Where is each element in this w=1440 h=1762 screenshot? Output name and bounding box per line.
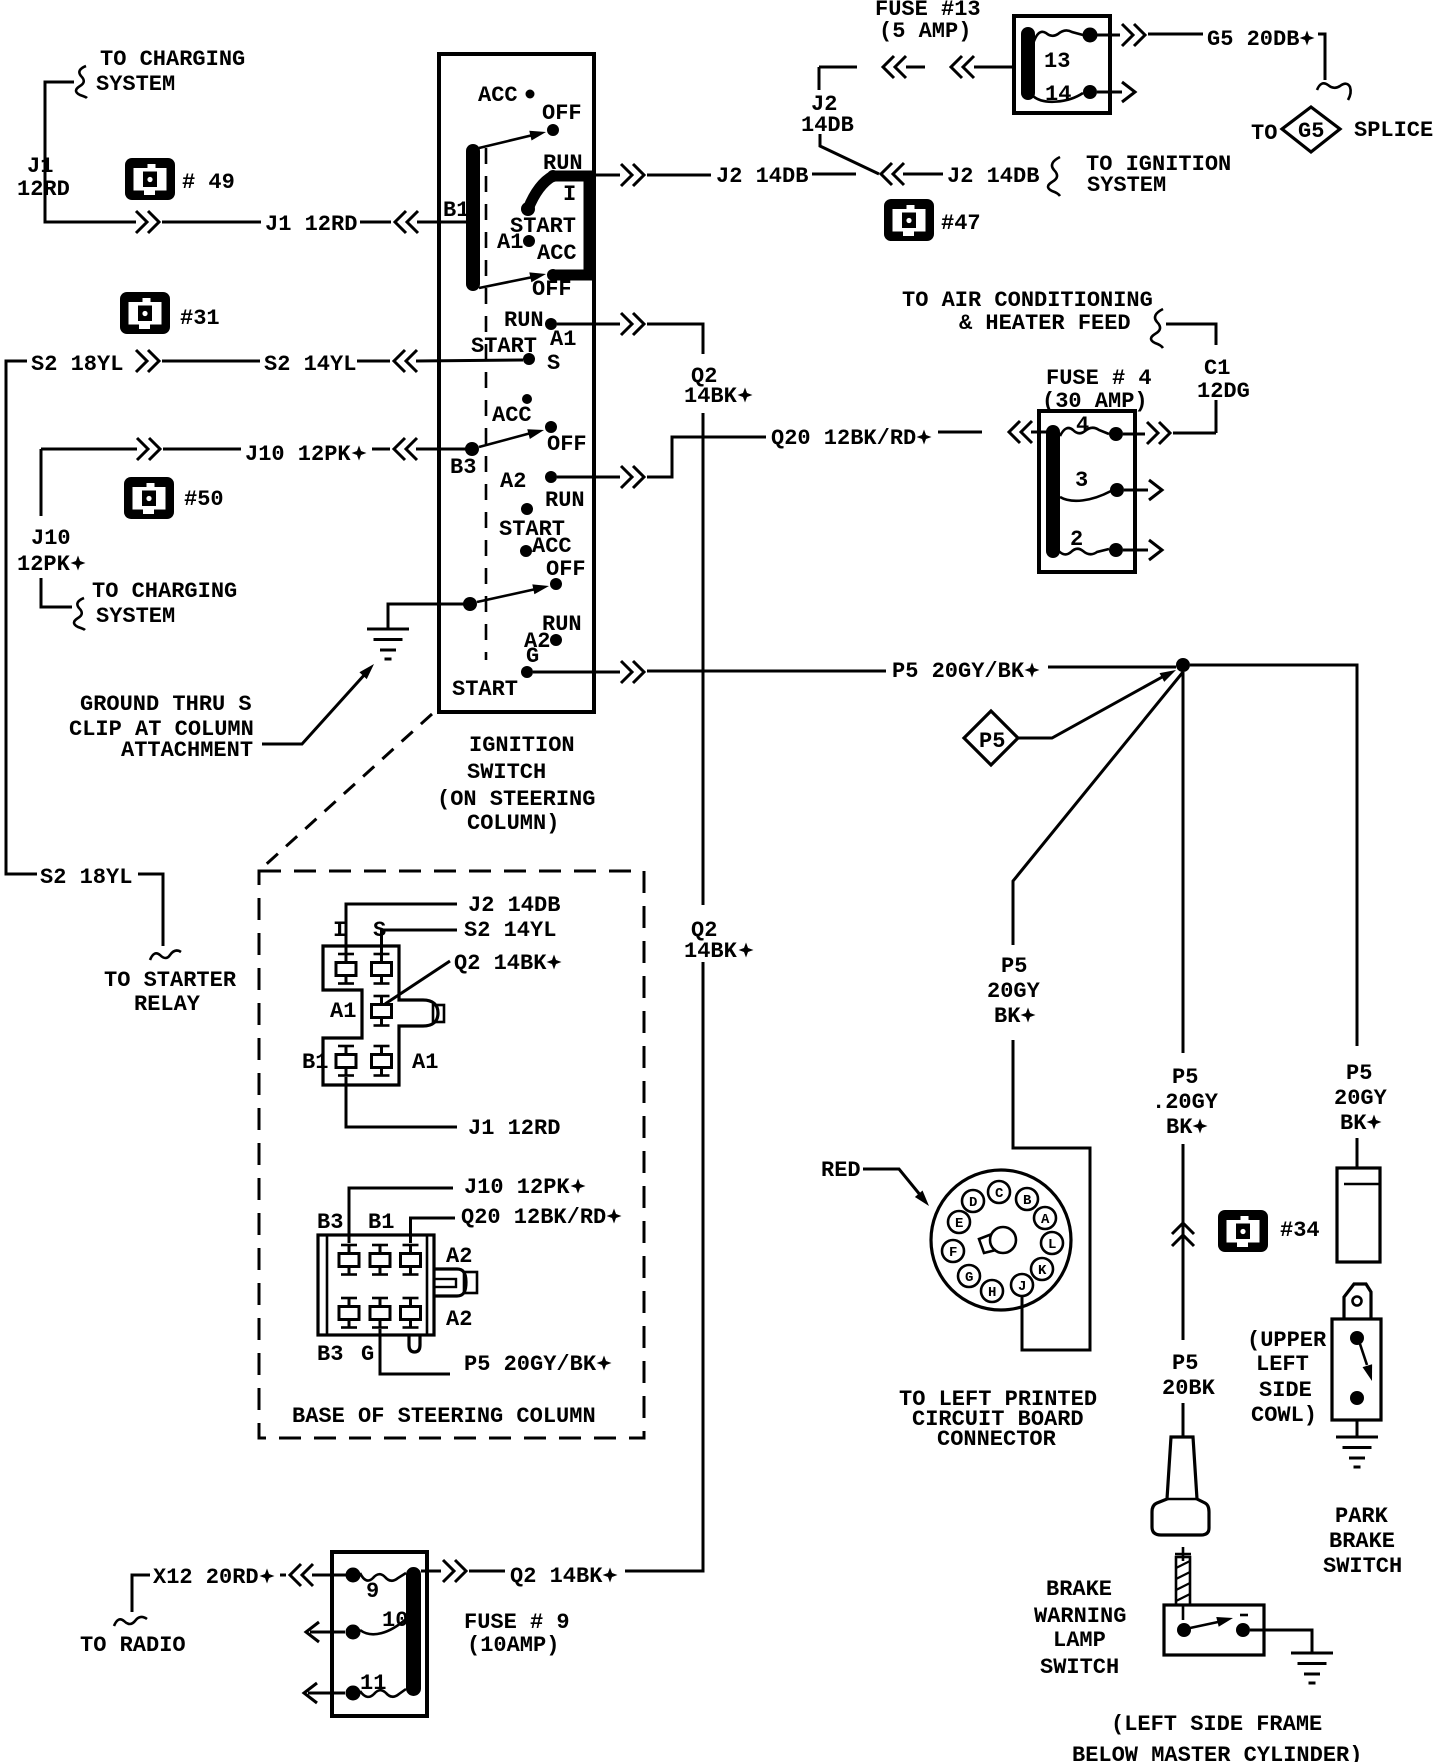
grommet #31 [120,292,220,334]
wire J1 to switch [360,221,391,224]
wire fuse14 out [1097,91,1122,94]
note (UPPER LEFT SIDE COWL) [1247,1328,1327,1428]
key of round connector [979,1227,1016,1253]
svg-text:D: D [969,1195,977,1211]
wire P5 to junction [1048,666,1176,669]
wire X12 to fuse9 [280,1574,286,1577]
terminal ACC2 (sec3) [520,534,572,559]
wire fuse4 to C1 [1173,432,1216,435]
svg-text:14BK: 14BK [684,939,738,964]
svg-text:L: L [1048,1237,1056,1253]
wire fuse13 pin13 out [1097,34,1120,37]
break squiggle (heater feed) [1151,309,1163,348]
wire C1 down to fuse4 out [1215,400,1218,433]
wire G5 20DB [1148,33,1203,36]
pin B3b (lower) [339,1298,359,1328]
lower connector tab [434,1269,477,1296]
dashed divider inside switch [485,148,488,660]
svg-text:#31: #31 [180,306,220,331]
svg-text:Q20 12BK/RD: Q20 12BK/RD [461,1205,606,1230]
lower column connector box [318,1235,434,1335]
caption TO LEFT PRINTED CIRCUIT BOARD CONNECTOR [899,1387,1097,1452]
svg-text:P5: P5 [1001,954,1027,979]
node label J2 14DB [801,92,854,138]
break squiggle (radio) [114,1617,147,1626]
svg-text:BRAKE: BRAKE [1329,1529,1395,1554]
fuse 2 element [1057,527,1123,557]
svg-text:TO STARTER: TO STARTER [104,968,237,993]
upper column connector outline [323,946,438,1085]
caption PARK BRAKE SWITCH [1323,1504,1402,1579]
wire RUN A1 out [557,323,620,326]
break squiggle (charging system 2) [74,598,85,630]
svg-text:Q2 14BK: Q2 14BK [454,951,547,976]
svg-text:A2: A2 [446,1307,472,1332]
svg-text:20GY: 20GY [987,979,1041,1004]
wiper arrow B1 to OFF2 [479,269,547,288]
wire label G5 20DB [1207,27,1315,52]
svg-text:J2 14DB: J2 14DB [716,164,808,189]
caption IGNITION SWITCH [437,733,595,836]
wire label Q2 14BK (mid) [684,918,754,964]
svg-text:K: K [1038,1263,1047,1279]
svg-text:TO RADIO: TO RADIO [80,1633,186,1658]
wire label P5 20BK [1162,1351,1216,1401]
wire label P5 20GY BK (left column) [987,954,1041,1029]
svg-text:J: J [1018,1279,1026,1295]
printed circuit board connector (round) [931,1170,1071,1310]
svg-text:BK: BK [994,1004,1021,1029]
svg-text:12PK: 12PK [17,552,71,577]
svg-text:(UPPER: (UPPER [1247,1328,1327,1353]
fuse block 13 bus bar [1021,27,1035,100]
svg-text:OFF: OFF [547,432,587,457]
svg-text:F: F [949,1245,957,1261]
svg-text:B1: B1 [302,1050,328,1075]
terminal A2 RUN (sec3) [500,469,585,513]
wire S2 14YL [162,360,260,363]
pin L [1041,1232,1063,1254]
svg-text:C: C [995,1186,1004,1202]
svg-text:A2: A2 [446,1244,472,1269]
svg-text:J10 12PK: J10 12PK [245,442,351,467]
wire P5 20BK to cone [1182,1403,1185,1437]
wire S2 18YL left rail [6,361,37,874]
terminal START (sec3) [499,503,565,542]
svg-text:TO: TO [1251,121,1277,146]
connector cone (brake warning feed) [1152,1437,1209,1535]
svg-text:J1 12RD: J1 12RD [468,1116,560,1141]
wire C1 12DG [1166,324,1216,345]
node TO CHARGING SYSTEM (mid left) [92,579,237,629]
wire ground to switch [388,604,465,629]
connector arrow J2 feed 1 [883,56,906,78]
terminal B3 [450,442,479,480]
svg-text:A1: A1 [330,999,356,1024]
break squiggle (starter relay) [150,951,181,960]
terminal OFF2 (sec3) [546,557,586,590]
svg-text:B3: B3 [317,1342,343,1367]
wire S2 into switch to S terminal [416,360,523,361]
svg-text:B3: B3 [317,1210,343,1235]
wire fuse4 pin4 out [1123,433,1145,436]
svg-text:SWITCH: SWITCH [467,760,546,785]
node TO G5 SPLICE [1251,107,1433,152]
wire J10 rail [40,449,43,516]
connector arrow J10 in [394,438,417,460]
wire fuse9 out [421,1570,441,1573]
svg-text:J10: J10 [31,526,71,551]
svg-text:E: E [955,1216,963,1232]
svg-text:S2 14YL: S2 14YL [464,918,556,943]
terminal START (sec1) [510,202,576,239]
wire J2 row right [903,173,943,176]
pin A2b (lower) [401,1298,421,1328]
node P5 junction [1176,658,1190,672]
splice diamond P5 [964,711,1018,765]
wire brake switch to ground [1250,1630,1312,1653]
svg-text:(ON STEERING: (ON STEERING [437,787,595,812]
leader P5 diamond to junction [1018,666,1178,738]
svg-text:(5 AMP): (5 AMP) [879,19,971,44]
wire junction down (P5 .20GY BK) [1182,672,1185,1053]
svg-text:ACC: ACC [492,403,532,428]
pin A [1034,1207,1056,1229]
svg-text:COWL): COWL) [1251,1403,1317,1428]
thick contact path I [528,176,589,275]
svg-text:14DB: 14DB [801,113,854,138]
ground (park brake) [1336,1437,1378,1467]
wire J2 row [647,174,711,177]
node TO AIR CONDITIONING [902,288,1153,336]
svg-text:#50: #50 [184,487,224,512]
connector arrow fuse9 out [443,1560,466,1582]
svg-text:START: START [452,677,518,702]
svg-text:TO AIR CONDITIONING: TO AIR CONDITIONING [902,288,1153,313]
terminal RUN A1 (sec2) [504,308,576,352]
arrow fuse2 out [1149,540,1162,560]
wire right column to connector [1356,1138,1359,1168]
svg-text:BRAKE: BRAKE [1046,1577,1112,1602]
svg-text:I: I [333,918,346,943]
connector arrow fuse13 out [1122,24,1145,46]
fuse 10 element [346,1608,409,1640]
wire J2 row mid [812,173,856,176]
pin G [958,1265,980,1287]
wire label Q2 14BK (upper) [684,364,753,409]
brake warning switch plunger cross [1175,1547,1191,1561]
svg-text:PARK: PARK [1335,1504,1389,1529]
svg-text:S: S [547,351,560,376]
terminal OFF (sec3) [545,421,587,457]
svg-text:.20GY: .20GY [1152,1090,1219,1115]
brake warning contacts [1177,1613,1250,1637]
pin E [948,1211,970,1233]
svg-text:BK: BK [1340,1111,1367,1136]
arrow fuse11 [304,1683,317,1703]
svg-text:OFF: OFF [542,101,582,126]
terminal OFF2 (sec1) [532,269,572,302]
connector arrow J1 in [395,211,418,233]
svg-text:Q20 12BK/RD: Q20 12BK/RD [771,426,916,451]
wire label Q2 14BK (conn) [454,951,562,976]
ground symbol (column) [367,629,409,659]
svg-text:SYSTEM: SYSTEM [1087,173,1166,198]
inline connector (upper left cowl) [1337,1168,1380,1262]
fuse block 13 box [1014,16,1110,113]
node label J1 12RD [17,154,70,202]
svg-text:GROUND THRU S: GROUND THRU S [80,692,252,717]
svg-text:P5 20GY/BK: P5 20GY/BK [464,1352,597,1377]
connector arrow fuse4 out [1147,422,1170,444]
fuse 13 element [1033,28,1098,75]
leader line to ground [262,673,366,744]
contact bar B1 [466,144,480,291]
svg-text:(10AMP): (10AMP) [467,1633,559,1658]
terminal ground wiper dot [463,597,477,611]
wire Q2 14BK bottom [469,1570,505,1573]
break squiggle (ignition system) [1048,157,1060,196]
wire fuse3 out [1124,489,1148,492]
svg-text:ACC: ACC [537,241,577,266]
grommet #47 [884,199,981,241]
wire label J10 12PK (conn) [464,1175,586,1200]
terminal A1 (sec1) [497,230,535,255]
svg-text:FUSE # 9: FUSE # 9 [464,1610,570,1635]
svg-text:B1: B1 [368,1210,394,1235]
connector arrow Q20 in [1009,421,1032,443]
node TO STARTER RELAY [104,968,237,1017]
fuse block 9 box [332,1552,427,1716]
svg-text:20GY: 20GY [1334,1086,1388,1111]
svg-text:J2 14DB: J2 14DB [468,893,560,918]
wire J10 to charging [41,578,72,607]
wire Q20 to fuse4 [938,431,982,434]
pin J [1011,1274,1033,1296]
dashed leader from switch to dashed box [261,714,432,869]
svg-text:P5: P5 [1172,1065,1198,1090]
brake warning switch threaded rod [1176,1557,1190,1620]
wire fuse11 out left [308,1692,345,1695]
svg-text:TO CHARGING: TO CHARGING [92,579,237,604]
pin G (lower) [370,1298,390,1328]
wire pin I to J2 14DB [346,904,457,953]
wire J2 diagonal [820,134,879,174]
note GROUND THRU S CLIP [69,692,254,763]
svg-text:SYSTEM: SYSTEM [96,604,175,629]
caption FUSE #9 [464,1610,570,1658]
wire pin B1 to J1 12RD [346,1077,457,1127]
svg-text:SIDE: SIDE [1259,1378,1312,1403]
wire X12 bracket [132,1575,150,1612]
upper connector tab end [433,1005,444,1022]
wire S2 to starter relay [138,874,163,946]
terminal A2 RUN G (sec4) [524,612,582,654]
terminal OFF (sec1) [542,101,582,136]
dashed boundary base of steering column [259,871,644,1438]
fuse block 4 box [1039,411,1135,572]
break squiggle (G5) [1317,83,1351,100]
pin B1q (lower) [401,1245,421,1275]
svg-text:TO CHARGING: TO CHARGING [100,47,245,72]
wire A2 to Q20 [647,437,766,477]
svg-text:A2: A2 [500,469,526,494]
svg-text:FUSE # 4: FUSE # 4 [1046,366,1152,391]
svg-text:SWITCH: SWITCH [1040,1655,1119,1680]
svg-text:ATTACHMENT: ATTACHMENT [121,738,253,763]
node TO IGNITION SYSTEM [1086,152,1231,198]
connector arrow A1 out [621,313,644,335]
grommet #49 [125,158,235,200]
arrowhead to ground [359,661,377,680]
connector arrow J2 feed 2 [951,56,974,78]
svg-text:#47: #47 [941,211,981,236]
svg-text:BK: BK [1166,1115,1193,1140]
fuse 3 element [1060,468,1124,501]
wire label C1 12DG [1197,356,1250,404]
wire J10 into switch to B3 [416,448,466,451]
fuse block 4 bus bar [1046,425,1060,558]
wire pin S to S2 14YL [382,930,458,953]
svg-text:J1: J1 [27,154,53,179]
wire fuse2 out [1123,549,1148,552]
wire label Q20 12BK/RD [771,426,932,451]
connector arrow S2 [136,350,159,372]
svg-text:COLUMN): COLUMN) [467,811,559,836]
svg-text:A: A [1041,1212,1050,1228]
wire pin B3 to J10 12PK [349,1188,453,1243]
ground (brake warning) [1291,1653,1333,1683]
svg-text:13: 13 [1044,49,1070,74]
wire G out [533,671,620,674]
caption LEFT SIDE FRAME [1072,1712,1362,1762]
svg-text:SPLICE: SPLICE [1354,118,1433,143]
svg-text:14: 14 [1045,82,1071,107]
caption FUSE #13 [875,0,981,44]
connector arrow X12 in [290,1564,313,1586]
svg-text:OFF: OFF [546,557,586,582]
node label J10 12PK [17,526,86,577]
svg-text:12DG: 12DG [1197,379,1250,404]
pin B3 (lower) [339,1245,359,1275]
park brake contacts [1350,1331,1377,1405]
connector arrow J1 out [136,211,159,233]
wire Q2 14BK vertical [702,413,705,1571]
wire fuse10 out left [310,1631,345,1634]
pin H [981,1280,1003,1302]
wire A2 out [557,476,620,479]
connector arrow G out [621,661,644,683]
wire J1 riser [45,82,136,222]
svg-text:20BK: 20BK [1162,1376,1216,1401]
svg-text:A1: A1 [497,230,523,255]
svg-text:SWITCH: SWITCH [1323,1554,1402,1579]
svg-text:B1: B1 [443,198,469,223]
grommet #34 [1218,1210,1320,1252]
wire S2 to switch [357,360,390,363]
svg-text:P5: P5 [1346,1061,1372,1086]
pin S [372,954,392,984]
svg-text:G: G [965,1270,973,1286]
pin D [962,1190,984,1212]
wire J2 feed to fuse13 [819,66,1014,69]
wire pin G to P5 [380,1329,450,1374]
wire J1 12RD [162,221,261,224]
svg-text:A1: A1 [412,1050,438,1075]
pin K [1031,1258,1053,1280]
connector arrow A2 out [621,466,644,488]
fuse 4 element [1060,413,1123,441]
svg-text:RUN: RUN [545,488,585,513]
ignition switch box [439,54,594,712]
wire J2 corner [818,67,821,90]
svg-text:Q2 14BK: Q2 14BK [510,1564,603,1589]
svg-text:RUN: RUN [504,308,544,333]
svg-text:P5: P5 [979,729,1005,754]
wire P5 20GY/BK [647,670,886,673]
wire label P5 20GY/BK [892,659,1040,684]
wire label P5 .20GY BK (middle column) [1152,1065,1219,1140]
svg-text:BASE OF STEERING COLUMN: BASE OF STEERING COLUMN [292,1404,596,1429]
connector arrow J2 out of switch [621,164,644,186]
connector arrow S2 in [394,350,417,372]
node TO-CHARGING-SYSTEM (top left) [96,47,245,97]
pin A1 [372,1046,392,1076]
connector arrow J2 row [881,163,904,185]
caption BRAKE WARNING LAMP SWITCH [1034,1577,1126,1680]
wire diagonal junction to PCB connector [1013,672,1183,945]
svg-text:LAMP: LAMP [1053,1628,1106,1653]
connector chevron up [1172,1223,1194,1246]
park brake switch tab [1344,1284,1371,1319]
lower connector stub [409,1335,420,1352]
svg-text:C1: C1 [1204,356,1230,381]
svg-text:J10 12PK: J10 12PK [464,1175,570,1200]
svg-text:G5: G5 [1298,119,1324,144]
break squiggle (to charging system) [76,66,87,98]
svg-text:X12 20RD: X12 20RD [153,1565,259,1590]
svg-text:RELAY: RELAY [134,992,201,1017]
svg-text:(LEFT SIDE FRAME: (LEFT SIDE FRAME [1111,1712,1322,1737]
svg-text:P5 20GY/BK: P5 20GY/BK [892,659,1025,684]
terminal START S (sec2) [471,334,560,376]
wire park brake to ground [1356,1420,1359,1437]
terminal ACC (sec1) [478,83,535,108]
svg-text:12RD: 12RD [17,177,70,202]
pin center top (lower) [370,1245,390,1275]
pin F [942,1240,964,1262]
fuse block 9 bus bar [406,1567,421,1696]
svg-text:G: G [361,1342,374,1367]
pin Q2 [372,996,392,1026]
wire into fuse9 [312,1574,346,1577]
svg-text:RED: RED [821,1158,861,1183]
svg-text:S2 14YL: S2 14YL [264,352,356,377]
svg-text:11: 11 [360,1671,386,1696]
svg-text:WARNING: WARNING [1034,1604,1126,1629]
pin B1 [336,1046,356,1076]
svg-text:CONNECTOR: CONNECTOR [937,1427,1057,1452]
wire J10 to switch [372,448,390,451]
svg-text:& HEATER FEED: & HEATER FEED [959,311,1131,336]
svg-text:ACC: ACC [478,83,518,108]
wire P5 middle column lower [1182,1144,1185,1340]
wiper arrow B1 to OFF [479,127,547,148]
wire pin Q2 leader [385,961,450,1004]
svg-text:LEFT: LEFT [1256,1352,1309,1377]
svg-text:G5 20DB: G5 20DB [1207,27,1299,52]
wire G5 to splice [1318,34,1325,80]
